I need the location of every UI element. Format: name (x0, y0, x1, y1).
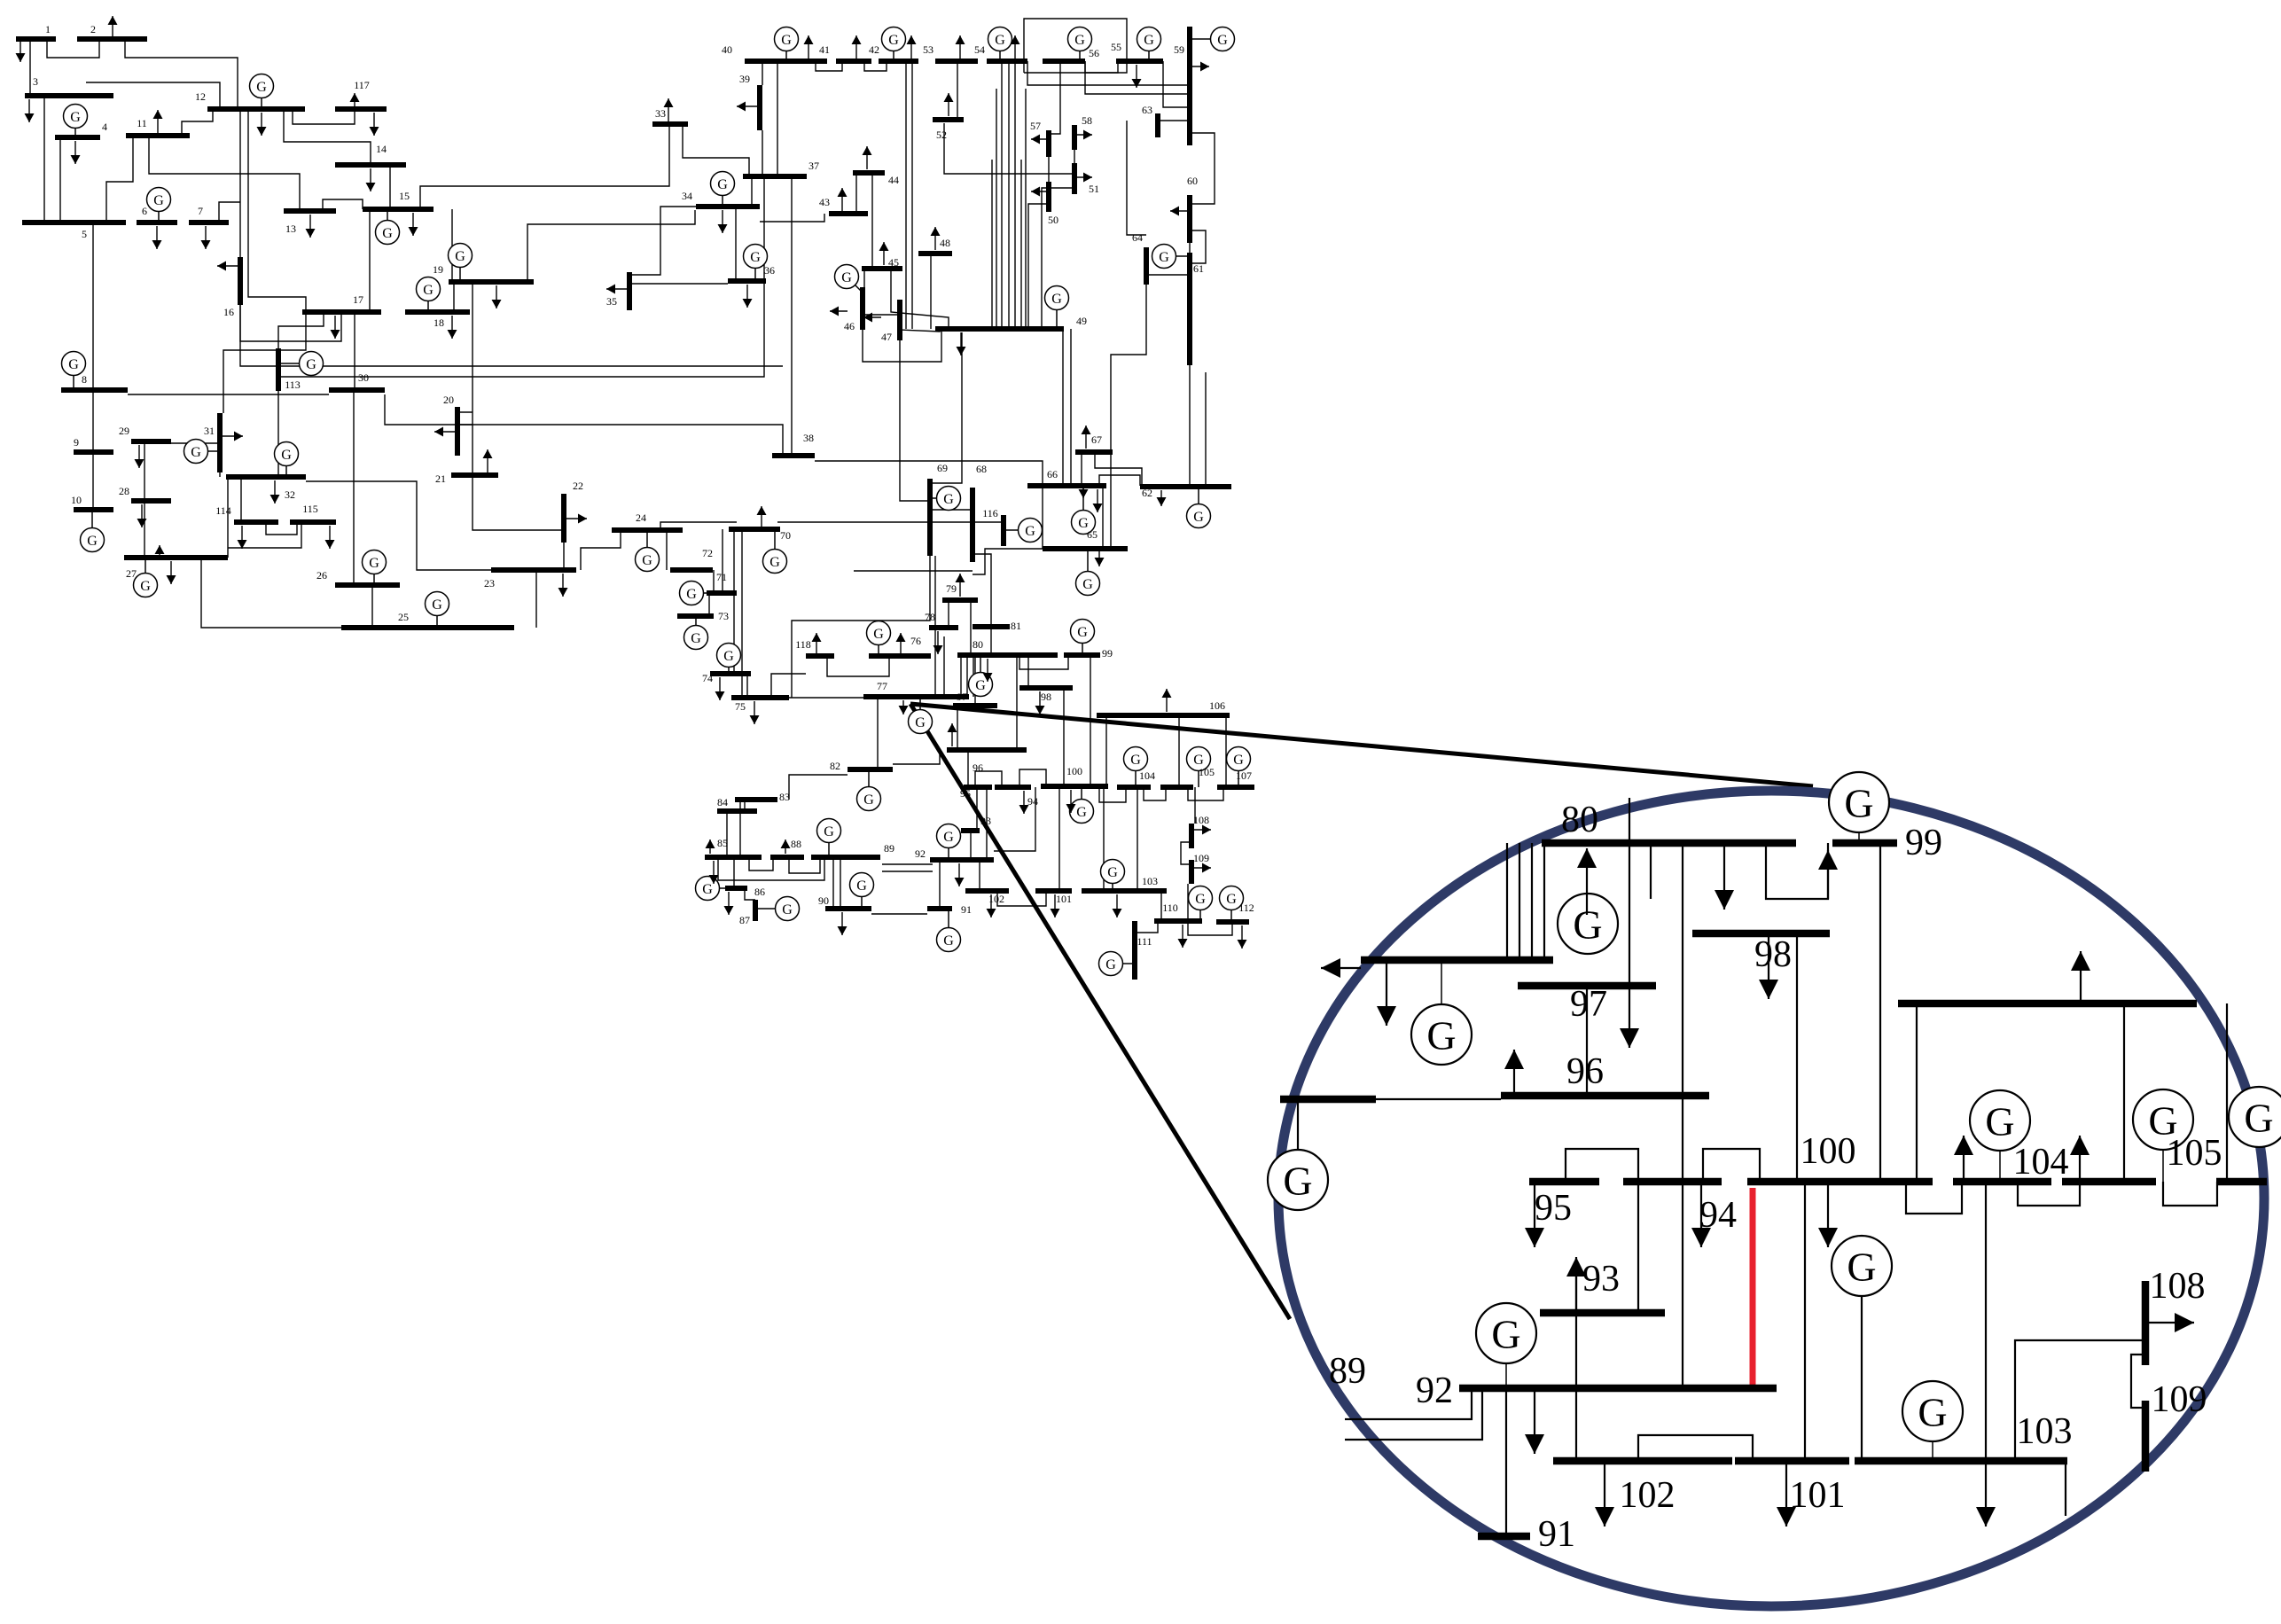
load arrow at bus 53 (956, 35, 965, 59)
svg-text:16: 16 (223, 306, 234, 318)
wire 37-38 circuit (791, 176, 793, 456)
bus 45 (862, 266, 902, 271)
wire 13-15 (323, 199, 363, 211)
load arrow at bus 103 (1113, 894, 1122, 917)
inset bus 97 (1518, 982, 1656, 990)
wire 56-59 (1085, 61, 1190, 94)
load arrow at bus 94 (1019, 791, 1029, 814)
load arrow at bus inset 106 up (2071, 951, 2090, 1000)
load arrow at bus 67 in (1079, 486, 1089, 498)
generator G at bus 104 (1124, 747, 1148, 788)
generator G at bus 64 (1152, 245, 1191, 269)
load arrow at bus 27 in (155, 545, 165, 558)
wire 71-72 (713, 570, 715, 593)
wire 30-38 (385, 394, 783, 456)
svg-text:G: G (256, 80, 267, 95)
bus 56 (1043, 59, 1085, 64)
wire inset 77-80 circuit c (1531, 843, 1533, 960)
generator G at bus 103 (1101, 860, 1125, 892)
svg-text:70: 70 (780, 529, 791, 542)
bus 36 (728, 278, 766, 284)
bus 76 (869, 653, 931, 659)
load arrow at bus 11 (153, 110, 163, 133)
svg-text:105: 105 (2167, 1133, 2222, 1174)
wire inset 80-92 long (1682, 843, 1683, 1388)
svg-text:99: 99 (1102, 647, 1113, 660)
load arrow at bus 100 (1066, 790, 1076, 813)
svg-text:109: 109 (2152, 1379, 2207, 1420)
wire 11-12 (182, 109, 213, 136)
svg-text:G: G (1082, 577, 1093, 592)
bus 110 (1154, 918, 1202, 924)
svg-text:42: 42 (869, 43, 879, 56)
svg-text:3: 3 (33, 75, 38, 88)
load arrow at bus 44 (863, 146, 872, 169)
svg-text:G: G (153, 193, 164, 208)
svg-text:102: 102 (988, 893, 1004, 905)
svg-text:92: 92 (915, 847, 926, 860)
svg-text:72: 72 (702, 547, 713, 559)
bus 94 (995, 785, 1031, 790)
generator G at bus 19 (449, 244, 473, 283)
load arrow at bus 88 (781, 839, 791, 854)
generator G at bus 6 (147, 188, 171, 223)
generator G at bus 15 (376, 209, 400, 245)
load arrow at bus inset 101 (1777, 1464, 1796, 1526)
svg-text:98: 98 (1041, 691, 1051, 703)
load arrow at bus 34 (718, 210, 728, 233)
svg-text:G: G (1130, 753, 1141, 768)
bus 82 (848, 767, 893, 772)
inset bus 94 (1623, 1178, 1722, 1186)
svg-text:G: G (686, 587, 697, 602)
svg-text:85: 85 (717, 837, 728, 849)
svg-text:105: 105 (1199, 766, 1215, 778)
wire 48-49 (930, 254, 932, 329)
svg-text:74: 74 (702, 672, 713, 684)
generator G at bus 36 (744, 245, 768, 282)
wire 45-49 (891, 269, 949, 329)
generator G at bus 77 (909, 697, 933, 734)
wire 115-27 (228, 522, 301, 548)
bus 51 (vertical bar) (1072, 163, 1077, 194)
magnifier ellipse (1278, 791, 2264, 1606)
svg-text:54: 54 (974, 43, 985, 56)
wire 54-49 e (1025, 89, 1027, 329)
generator G at bus 76 (867, 621, 891, 657)
bus 85 (705, 855, 762, 860)
svg-text:G: G (750, 250, 761, 265)
bus 107 (1217, 785, 1254, 790)
wire 92-100 (994, 787, 1035, 851)
generator G at bus 54 (988, 27, 1012, 62)
bus 73 (677, 613, 714, 619)
generator G at bus inset 99 (1829, 772, 1889, 843)
bus 28 (131, 498, 171, 504)
wire 42-49 circuit 1 (905, 61, 907, 329)
bus 50 (vertical bar) (1046, 182, 1051, 212)
wire 75-77 (789, 697, 863, 699)
bus 64 (vertical bar) (1144, 247, 1149, 285)
load arrow at bus 96 (948, 723, 957, 746)
bus 27 (124, 555, 228, 560)
svg-text:83: 83 (779, 791, 790, 803)
wire inset 106 risers a (1916, 1003, 1918, 1182)
wire 49-69 (930, 332, 962, 483)
wire inset 104-105 loop (2018, 1182, 2080, 1206)
generator G at bus 107 (1227, 747, 1251, 788)
svg-text:94: 94 (1027, 795, 1038, 808)
wire 60-61 (1189, 243, 1191, 253)
wire 89-90 circuit 1 (832, 857, 834, 909)
bus 113 (vertical bar) (276, 348, 281, 391)
wire 32-114 (240, 477, 242, 522)
wire 12-14 (284, 109, 371, 165)
load arrow at bus 78 (933, 631, 943, 654)
wire 49-54 circuit 2 (1014, 61, 1016, 329)
wire 25-26 (371, 585, 373, 628)
load arrow at bus 1 (16, 39, 26, 62)
svg-text:108: 108 (2150, 1266, 2206, 1307)
bus 43 (829, 211, 868, 216)
bus 61 (vertical bar) (1187, 253, 1192, 365)
wire 21-22 (473, 475, 564, 543)
bus 104 (1117, 785, 1151, 790)
load arrow at bus inset 98 (1759, 937, 1778, 999)
wire 53-49 a (991, 160, 993, 329)
load arrow at bus 101 (1051, 894, 1060, 917)
svg-text:55: 55 (1111, 41, 1121, 53)
wire 79-80 (970, 600, 972, 655)
wire 110-111 (1135, 921, 1158, 933)
wire 19-34 (527, 210, 695, 282)
wire inset 77-80 circuit b (1519, 843, 1520, 960)
wire inset 104-103 (1985, 1182, 1987, 1461)
load arrow at bus inset 108 out (2145, 1313, 2194, 1332)
wire 92-102 (979, 860, 980, 891)
load arrow at bus 3 (25, 99, 35, 122)
load arrow at bus inset 80 load down (1715, 843, 1734, 910)
wire 105-106 (1178, 715, 1180, 787)
svg-text:114: 114 (215, 504, 231, 517)
load arrow at bus inset feeder left out (1321, 958, 1361, 978)
wire 38-65 (815, 461, 1043, 549)
svg-text:5: 5 (82, 228, 87, 240)
svg-text:98: 98 (1754, 934, 1792, 975)
svg-text:101: 101 (1790, 1475, 1846, 1516)
svg-text:57: 57 (1030, 120, 1041, 132)
bus 101 (1035, 888, 1072, 894)
load arrow at bus 27 (167, 561, 176, 584)
wire 89-92 circuit 1 (882, 863, 933, 865)
load arrow at bus 4 (71, 141, 81, 164)
svg-text:80: 80 (1561, 800, 1598, 840)
wire 40-39 (762, 61, 763, 85)
bus 89 (811, 855, 880, 860)
svg-text:G: G (995, 33, 1005, 48)
wire 19-20 stub (457, 411, 473, 413)
wire 96-97 (957, 706, 958, 750)
wire 109-110 (1187, 884, 1189, 921)
load arrow at bus 43 (838, 188, 848, 211)
wire 33-37 (683, 124, 749, 176)
wire 11-13 (149, 136, 300, 211)
svg-text:81: 81 (1011, 620, 1021, 632)
svg-text:G: G (68, 357, 79, 372)
generator G at bus inset 89 feeder G (1411, 960, 1472, 1065)
svg-text:G: G (1144, 33, 1154, 48)
wire 56-57 (1049, 61, 1060, 134)
inset bus 106 (1898, 1000, 2197, 1008)
bus 21 (451, 472, 498, 478)
bus 71 (707, 590, 737, 596)
generator G at bus 31 (184, 440, 221, 464)
bus 24 (612, 527, 683, 533)
load arrow at bus 35 (606, 285, 629, 294)
wire 82-96 (893, 750, 940, 764)
load arrow at bus 55 (1132, 65, 1142, 88)
bus 33 (652, 121, 688, 127)
wire 49-50 (1028, 204, 1049, 329)
bus 102 (965, 888, 1009, 894)
wire 64-61 (1146, 274, 1190, 276)
svg-text:G: G (2244, 1096, 2273, 1141)
svg-text:G: G (1847, 1245, 1876, 1290)
wire 89-92 circuit 2 (882, 871, 933, 872)
generator G at bus 87 (755, 897, 800, 921)
svg-text:40: 40 (722, 43, 732, 56)
wire 78-79 (948, 600, 949, 628)
load arrow at bus inset 97 (1620, 986, 1639, 1048)
wire 84-85 (726, 811, 728, 857)
inset bus 96 (1501, 1092, 1709, 1100)
bus 79 (942, 597, 978, 603)
load arrow at bus 2 (108, 16, 118, 39)
svg-text:86: 86 (754, 886, 765, 898)
wire 3-12 (86, 82, 220, 109)
load arrow at bus 65 (1095, 549, 1105, 566)
generator G at bus 80 (969, 655, 993, 697)
wire 64-65 (1111, 275, 1146, 549)
wire 12-16 (239, 109, 241, 257)
bus 10 (74, 507, 113, 512)
svg-text:G: G (1077, 625, 1088, 640)
generator G at bus 82 (857, 769, 881, 811)
svg-text:71: 71 (716, 571, 727, 583)
svg-text:2: 2 (90, 23, 96, 35)
wire 8-30 (128, 394, 329, 395)
wire 91-92 (939, 860, 941, 909)
generator G at bus inset 107 (2229, 1087, 2281, 1147)
wire 85-86 (733, 857, 735, 888)
generator G at bus 56 (1068, 27, 1092, 62)
svg-text:11: 11 (137, 117, 147, 129)
svg-text:29: 29 (119, 425, 129, 437)
generator G at bus inset edge (1268, 1150, 1328, 1210)
bus 20 (vertical bar) (455, 407, 460, 456)
bus 97 (953, 703, 997, 708)
generator G at bus 27 (134, 558, 158, 597)
svg-text:39: 39 (739, 73, 750, 85)
bus 66 (1027, 483, 1106, 488)
inset bus 80 (1542, 839, 1796, 847)
svg-text:25: 25 (398, 611, 409, 623)
load arrow at bus 51 (1074, 173, 1092, 183)
wire 69-75 (792, 548, 930, 698)
wire inset 89-92 circuit 1 (1345, 1388, 1472, 1419)
inset bus 92 (1459, 1385, 1777, 1393)
load arrow at bus 90 (838, 912, 848, 935)
svg-text:62: 62 (1142, 487, 1152, 499)
wire inset 98-100 (1796, 933, 1798, 1182)
svg-text:G: G (1426, 1013, 1456, 1058)
inset bus 93 (1540, 1309, 1665, 1317)
magnifier callout line upper (910, 704, 1813, 786)
wire inset 93-102 (1575, 1263, 1577, 1461)
wire 1-3 (29, 39, 31, 96)
generator G at bus inset 104 (1970, 1090, 2030, 1182)
wire 68-65 (973, 549, 1043, 574)
svg-text:34: 34 (682, 190, 692, 202)
svg-text:80: 80 (973, 638, 983, 651)
svg-text:113: 113 (285, 379, 301, 391)
svg-text:G: G (1844, 781, 1873, 826)
bus 69 (vertical bar) (927, 479, 933, 556)
bus 49 (935, 326, 1064, 332)
wire 34-37 (751, 176, 753, 207)
load arrow at bus 21 (483, 449, 493, 472)
wire 110-112 (1188, 921, 1232, 935)
wire 113-17 (278, 312, 324, 348)
wire 94-93 (976, 787, 978, 831)
svg-text:100: 100 (1801, 1131, 1856, 1172)
load arrow at bus 20 (434, 427, 457, 437)
svg-text:66: 66 (1047, 468, 1058, 480)
load arrow at bus 47 (863, 313, 881, 323)
generator G at bus 4 (64, 105, 88, 138)
generator G at bus 71 (680, 582, 707, 605)
svg-text:7: 7 (198, 205, 203, 217)
wire 12-117 (293, 109, 355, 124)
inset bus edge bus (1280, 1096, 1376, 1104)
generator G at bus 69 (930, 487, 961, 511)
svg-text:G: G (723, 649, 734, 664)
wire 70-74 (733, 529, 735, 674)
wire 70-116 (777, 521, 1003, 523)
load arrow at bus 62 G side (1157, 490, 1167, 506)
load arrow at bus 57 (1031, 135, 1049, 144)
wire 83-84 (744, 800, 746, 811)
inset bus 103 (1855, 1457, 2067, 1465)
svg-text:99: 99 (1905, 823, 1942, 863)
wire 114-115 (266, 522, 297, 535)
inset bus 107 (2216, 1178, 2267, 1186)
svg-text:43: 43 (819, 196, 830, 208)
wire 104-105 (1144, 787, 1166, 800)
svg-text:G: G (382, 226, 393, 241)
load arrow at bus 48 (931, 227, 941, 250)
bus 29 (131, 439, 171, 444)
load arrow at bus 16 (217, 262, 240, 271)
svg-text:G: G (841, 270, 852, 285)
bus 46 (vertical bar) (860, 287, 865, 330)
svg-text:93: 93 (980, 815, 991, 827)
wire 16-17 (240, 305, 341, 341)
wire inset 77-80 circuit d (1543, 843, 1545, 960)
svg-text:111: 111 (1137, 935, 1152, 948)
load arrow at bus 12 (257, 113, 267, 136)
svg-text:53: 53 (923, 43, 933, 56)
wire 1-2 (47, 39, 99, 58)
generator G at bus 26 (363, 550, 387, 586)
svg-text:110: 110 (1162, 902, 1178, 914)
svg-text:G: G (432, 597, 442, 613)
wire 113-37 long (278, 176, 764, 377)
wire 16-38 long (240, 305, 783, 366)
wire 9-10 (92, 452, 94, 510)
load arrow at bus 70 (757, 506, 767, 529)
bus 67 (1075, 449, 1113, 455)
bus 2 (77, 36, 147, 42)
wire 47-69 (900, 340, 930, 501)
inset bus 100 (1747, 1178, 1933, 1186)
svg-text:G: G (642, 553, 652, 568)
wire inset 103-108 (2015, 1340, 2145, 1461)
wire 50-57 (1048, 157, 1050, 182)
bus 35 (vertical bar) (627, 272, 632, 310)
wire 76-118 (827, 656, 889, 676)
wire 105-108 (1194, 787, 1196, 824)
wire 5-8 (92, 223, 94, 390)
generator G at bus 8 (62, 352, 86, 391)
svg-text:4: 4 (102, 121, 107, 133)
svg-text:G: G (87, 534, 98, 549)
load arrow at bus inset 92 (1525, 1392, 1544, 1454)
load arrow at bus 22 (564, 514, 587, 524)
bus 116 (vertical bar) (1001, 515, 1006, 546)
wire 80-81 (990, 627, 992, 655)
wire 69-77 (934, 556, 936, 697)
bus 115 (290, 519, 336, 525)
wire 14-15 (389, 165, 391, 209)
wire 103-110 (1160, 891, 1162, 921)
bus 19 (449, 279, 534, 285)
load arrow at bus 85 (709, 861, 719, 884)
wire 27-28 (144, 501, 145, 558)
wire 113-32 (277, 391, 279, 477)
load arrow at bus inset 93 in (1566, 1257, 1586, 1310)
svg-text:95: 95 (960, 787, 971, 800)
bus 12 (207, 106, 305, 112)
bus 38 (772, 453, 815, 458)
svg-text:G: G (191, 445, 201, 460)
load arrow at bus 15 (409, 213, 418, 236)
wire 35-36 (629, 283, 728, 285)
svg-text:91: 91 (1538, 1514, 1575, 1555)
wire 41-42 (864, 61, 887, 71)
svg-text:100: 100 (1066, 765, 1082, 777)
wire 25-27 (201, 558, 341, 628)
svg-text:32: 32 (285, 488, 295, 501)
bus 57 (vertical bar) (1046, 130, 1051, 157)
svg-text:G: G (691, 631, 701, 646)
load arrow at bus 39 (737, 102, 760, 112)
load arrow at bus 45 (879, 242, 889, 265)
wire 51-58 (1074, 150, 1075, 163)
wire inset G100-103 (1861, 1296, 1863, 1461)
load arrow at bus inset 104 in (1954, 1136, 1973, 1182)
bus 78 (929, 625, 958, 630)
